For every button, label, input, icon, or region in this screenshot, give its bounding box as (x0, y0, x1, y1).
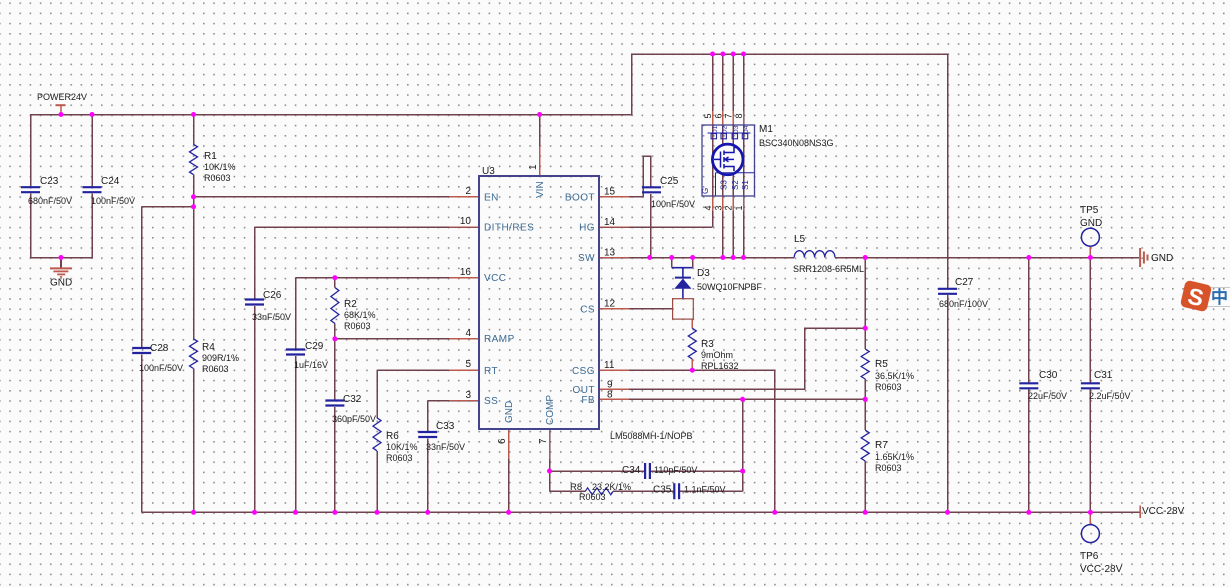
svg-text:6: 6 (497, 438, 508, 444)
capacitor C33 (418, 432, 437, 437)
svg-text:16: 16 (460, 267, 472, 278)
svg-text:C23: C23 (40, 176, 59, 187)
capacitor C29 (286, 350, 305, 355)
capacitor C32 (325, 401, 344, 406)
wire C28 column bottom (141, 355, 143, 513)
svg-text:C32: C32 (343, 394, 362, 405)
wire R3 top/bottom leads (691, 319, 693, 370)
capacitor C27 (938, 289, 957, 294)
test point TP5 (1081, 228, 1099, 246)
wire FB riser (742, 399, 744, 491)
svg-text:11: 11 (604, 360, 615, 371)
svg-text:R5: R5 (875, 359, 888, 370)
wire RAMP net (335, 338, 479, 340)
svg-text:3: 3 (713, 205, 723, 210)
svg-text:C30: C30 (1039, 370, 1058, 381)
svg-text:R0603: R0603 (875, 463, 902, 473)
wire C31 column (1089, 258, 1091, 513)
svg-text:4: 4 (465, 328, 471, 339)
svg-text:VCC-28V: VCC-28V (1080, 564, 1123, 575)
svg-text:G: G (701, 188, 710, 194)
wire input gnd: C23/C24 bottom (31, 194, 93, 258)
capacitor C24 (83, 187, 102, 192)
svg-text:R0603: R0603 (579, 492, 606, 502)
svg-text:GND: GND (1151, 253, 1173, 264)
capacitor C25 (642, 187, 661, 192)
resistor R5 (861, 349, 869, 379)
wire TP5 stub (1089, 246, 1091, 257)
diode D3 (672, 268, 693, 299)
wire D3 top stubs (672, 258, 693, 268)
svg-text:110pF/50V: 110pF/50V (654, 465, 697, 475)
wire VCC to C29 (296, 278, 480, 351)
resistor R4 (190, 339, 198, 369)
svg-text:6: 6 (713, 113, 723, 118)
svg-text:5: 5 (703, 113, 713, 118)
svg-text:1uF/16V: 1uF/16V (294, 360, 328, 370)
svg-text:680nF/100V: 680nF/100V (939, 299, 988, 309)
svg-text:C26: C26 (263, 290, 282, 301)
op-amp U3 body LM5088 (479, 176, 599, 429)
test point TP6 (1081, 525, 1099, 543)
svg-text:C35: C35 (653, 485, 672, 496)
svg-text:DITH/RES: DITH/RES (484, 223, 534, 234)
capacitor C34 (645, 463, 650, 479)
svg-text:R0603: R0603 (875, 382, 902, 392)
svg-text:D1: D1 (712, 125, 719, 134)
wire R4 bottom lead (193, 369, 195, 513)
svg-text:CS: CS (580, 305, 595, 316)
svg-text:2: 2 (465, 186, 471, 197)
svg-text:D4: D4 (743, 125, 750, 134)
wire R6 bottom lead (376, 451, 378, 513)
U3 bottom pin stubs (509, 429, 550, 459)
wire OUT net loop (599, 328, 865, 389)
svg-text:中: 中 (1211, 287, 1228, 307)
wire HG to M1 gate (599, 226, 713, 228)
svg-text:D2: D2 (722, 125, 729, 134)
svg-text:C29: C29 (305, 341, 324, 352)
wire R7 leads (864, 399, 866, 512)
svg-text:GND: GND (1080, 218, 1102, 229)
svg-text:100nF/50V: 100nF/50V (651, 199, 695, 209)
wire CSG net (599, 370, 775, 512)
svg-text:HG: HG (579, 223, 595, 234)
svg-text:COMP: COMP (545, 395, 556, 425)
wire C30 column (1028, 258, 1030, 513)
svg-text:TP6: TP6 (1080, 551, 1099, 562)
svg-text:D3: D3 (733, 125, 740, 134)
svg-text:R0603: R0603 (344, 321, 371, 331)
svg-text:23.2K/1%: 23.2K/1% (592, 482, 631, 492)
U3 right pin stubs (599, 197, 629, 399)
wire R5 column (864, 258, 866, 400)
svg-text:R1: R1 (204, 151, 217, 162)
wire C25 bottom lead to SW (650, 194, 652, 258)
svg-text:15: 15 (604, 187, 616, 198)
svg-text:12: 12 (604, 299, 616, 310)
svg-text:R0603: R0603 (386, 453, 413, 463)
svg-text:R4: R4 (202, 342, 215, 353)
transistor M1 inner bottom divider (716, 173, 755, 196)
ground symbol input GND (50, 268, 72, 277)
capacitor C26 (245, 300, 264, 305)
wire SW net to L5 (599, 257, 794, 259)
wire COMP column (549, 429, 551, 491)
wire SS net (428, 401, 479, 433)
svg-text:SW: SW (578, 253, 595, 264)
svg-text:S2: S2 (731, 180, 740, 190)
wire GND row after L5 (835, 257, 1139, 259)
capacitor C35 (674, 483, 679, 499)
svg-text:GND: GND (50, 278, 72, 289)
wire R1 bottom / R4 column (193, 175, 195, 339)
svg-text:10K/1%: 10K/1% (386, 442, 418, 452)
resistor R7 (861, 430, 869, 461)
resistor R1 (190, 144, 198, 174)
svg-text:68K/1%: 68K/1% (344, 310, 376, 320)
svg-text:C27: C27 (955, 277, 974, 288)
svg-text:S1: S1 (741, 180, 750, 190)
svg-text:R0603: R0603 (204, 173, 231, 183)
svg-text:50WQ10FNPBF: 50WQ10FNPBF (697, 282, 763, 292)
transistor M1 mosfet glyph (714, 148, 738, 172)
svg-text:VIN: VIN (535, 181, 546, 198)
wire R1 top lead (193, 115, 195, 145)
svg-text:FB: FB (581, 395, 595, 406)
svg-text:SRR1208-6R5ML: SRR1208-6R5ML (793, 264, 864, 274)
svg-text:RAMP: RAMP (484, 334, 515, 345)
wire VIN drop from rail (539, 115, 541, 177)
svg-text:4: 4 (703, 205, 713, 210)
svg-text:SS: SS (484, 396, 498, 407)
resistor R6 (373, 418, 381, 451)
U3 left pin stubs (449, 197, 479, 401)
svg-text:R3: R3 (701, 339, 714, 350)
svg-text:10K/1%: 10K/1% (204, 162, 236, 172)
node POWER24V rail wire (31, 54, 948, 289)
svg-text:5: 5 (465, 359, 471, 370)
wire CS net (599, 308, 673, 310)
wire C29 bottom lead (295, 356, 297, 513)
svg-text:1.1nF/50V: 1.1nF/50V (684, 485, 726, 495)
svg-text:10: 10 (460, 216, 472, 227)
inductor L5 (794, 251, 835, 258)
svg-text:360pF/50V: 360pF/50V (332, 414, 376, 424)
M1 bottom pin stubs (713, 196, 744, 211)
svg-text:TP5: TP5 (1080, 205, 1099, 216)
resistor R2 (331, 288, 339, 324)
svg-text:33nF/50V: 33nF/50V (252, 312, 291, 322)
svg-text:1: 1 (528, 164, 539, 170)
wire C32 column (334, 339, 336, 513)
svg-text:POWER24V: POWER24V (37, 92, 87, 102)
svg-text:BSC340N08NS3G: BSC340N08NS3G (759, 138, 834, 148)
watermark underline strokes (1197, 288, 1230, 307)
wire C28 column top (141, 207, 143, 349)
wire FB net (599, 398, 865, 400)
svg-text:LM5088MH-1/NOPB: LM5088MH-1/NOPB (610, 431, 693, 441)
svg-text:C33: C33 (436, 421, 455, 432)
ground symbol right GND (1140, 248, 1147, 267)
svg-text:C31: C31 (1094, 370, 1113, 381)
svg-text:L5: L5 (794, 234, 806, 245)
svg-text:C34: C34 (622, 465, 641, 476)
capacitor C31 (1081, 383, 1100, 388)
svg-text:14: 14 (604, 217, 616, 228)
svg-text:7: 7 (724, 113, 734, 118)
svg-text:EN: EN (484, 193, 499, 204)
wire TP6 stub (1089, 512, 1091, 524)
svg-text:M1: M1 (759, 124, 773, 135)
wire EN net R1 to U3 (194, 196, 480, 198)
svg-text:9mOhm: 9mOhm (701, 350, 733, 360)
svg-text:13: 13 (604, 248, 616, 259)
wire C28 tap (142, 206, 194, 208)
svg-text:1: 1 (734, 205, 744, 210)
diode D3 body box (673, 299, 694, 319)
wire C24 top lead (91, 115, 93, 189)
wire C34 row (550, 470, 743, 472)
capacitor C30 (1019, 383, 1038, 388)
svg-text:33nF/50V: 33nF/50V (426, 442, 465, 452)
wire M1 column wires (713, 54, 744, 258)
wire RT net (377, 370, 479, 418)
transistor M1 drain pads D1-D4 (711, 134, 748, 139)
resistor R3 (688, 328, 696, 359)
svg-text:C28: C28 (150, 343, 169, 354)
svg-text:VCC-28V: VCC-28V (1142, 506, 1185, 517)
svg-text:VCC: VCC (484, 273, 506, 284)
svg-text:R0603: R0603 (202, 364, 229, 374)
svg-text:R2: R2 (344, 299, 357, 310)
svg-text:22uF/50V: 22uF/50V (1028, 391, 1067, 401)
svg-text:CSG: CSG (572, 366, 595, 377)
svg-text:7: 7 (538, 438, 549, 444)
svg-text:680nF/50V: 680nF/50V (28, 196, 72, 206)
capacitor C23 (21, 187, 40, 192)
svg-text:1.65K/1%: 1.65K/1% (875, 452, 914, 462)
svg-text:C24: C24 (101, 176, 120, 187)
resistor R8 (585, 488, 613, 495)
capacitor C28 (132, 348, 151, 353)
wire C26 bottom lead (254, 306, 256, 513)
wire U3 GND pin to bus (508, 429, 510, 512)
wire C33 bottom lead (427, 438, 429, 512)
svg-text:R7: R7 (875, 440, 888, 451)
svg-text:8: 8 (607, 390, 613, 401)
U3 VIN pin stub (539, 146, 541, 176)
svg-text:R6: R6 (386, 431, 399, 442)
svg-text:C25: C25 (660, 176, 679, 187)
wire BOOT to C25 (599, 156, 651, 197)
svg-text:BOOT: BOOT (565, 193, 595, 204)
svg-text:U3: U3 (482, 166, 495, 177)
svg-text:100nF/50V: 100nF/50V (91, 196, 135, 206)
svg-text:D3: D3 (697, 268, 710, 279)
transistor M1 mosfet circle (712, 144, 743, 175)
svg-text:2.2uF/50V: 2.2uF/50V (1089, 391, 1131, 401)
svg-text:RPL1632: RPL1632 (701, 361, 739, 371)
node VCC-28V bottom bus wire (142, 511, 1140, 513)
wire R8 C35 row (550, 490, 743, 492)
M1 top pin stubs (713, 111, 744, 125)
watermark orange S logo (1180, 280, 1212, 313)
wire DITH/RES to C26 (255, 227, 480, 300)
wire C27 bottom lead (947, 295, 949, 512)
svg-text:36.5K/1%: 36.5K/1% (875, 371, 914, 381)
wire R2 leads (334, 278, 336, 339)
svg-text:2: 2 (724, 205, 734, 210)
svg-text:GND: GND (504, 401, 515, 423)
svg-text:RT: RT (484, 366, 498, 377)
transistor M1 inner top rail (708, 132, 751, 134)
svg-text:3: 3 (465, 390, 471, 401)
svg-text:S3: S3 (720, 180, 729, 190)
svg-text:100nF/50V: 100nF/50V (139, 363, 183, 373)
transistor M1 body (702, 125, 755, 196)
wire gnd stem (60, 258, 62, 268)
net marker VCC-28V tick (1139, 506, 1141, 519)
svg-text:8: 8 (734, 113, 744, 118)
svg-text:909R/1%: 909R/1% (202, 353, 239, 363)
power symbol POWER24V (56, 105, 66, 114)
